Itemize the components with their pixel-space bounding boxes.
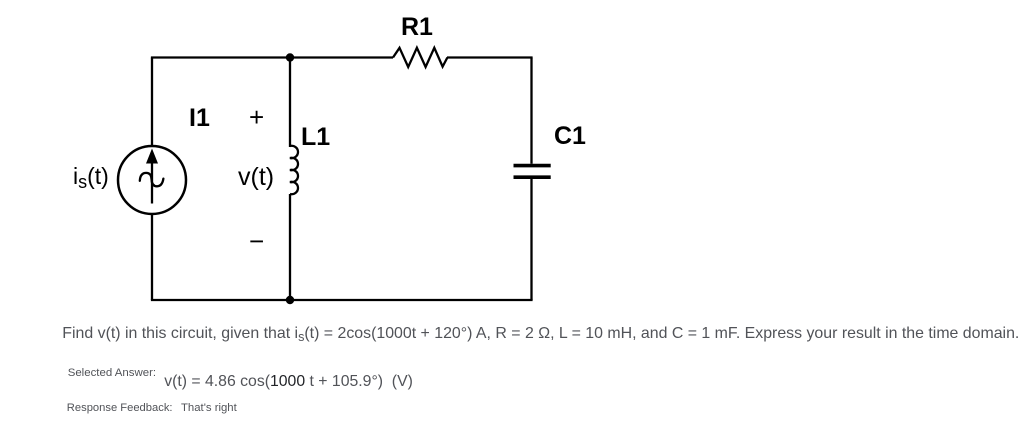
current source I1 circle	[118, 146, 186, 214]
label minus polarity	[249, 228, 264, 254]
wire top rail left segment	[151, 56, 290, 58]
wire right vertical lower	[530, 179, 532, 300]
wire middle vertical lower	[289, 194, 291, 300]
label is(t) source	[73, 165, 109, 191]
capacitor C1	[514, 166, 551, 178]
response feedback value	[181, 403, 237, 414]
wire middle vertical upper	[289, 58, 291, 148]
label plus polarity	[249, 104, 264, 130]
inductor L1	[290, 146, 298, 194]
current source arrow head	[146, 149, 158, 164]
label I1 designator	[189, 106, 210, 131]
wire top rail right segment	[447, 56, 533, 58]
label R1 value	[401, 15, 433, 40]
selected answer value	[164, 374, 413, 390]
selected answer label	[68, 368, 156, 379]
wire left vertical lower (source to bottom rail)	[151, 214, 153, 301]
wire left vertical upper (source to top rail)	[151, 58, 153, 147]
resistor R1	[393, 48, 447, 67]
wire top rail middle segment	[290, 56, 393, 58]
response feedback label	[67, 403, 173, 414]
wire right vertical upper	[530, 58, 532, 164]
label C1 value	[554, 124, 586, 149]
label L1 value	[301, 125, 330, 150]
question text	[62, 326, 1019, 344]
label v(t)	[238, 165, 274, 190]
current source sine tilde	[140, 173, 164, 186]
node B (bottom junction dot)	[286, 296, 294, 304]
current source arrow shaft	[151, 158, 153, 204]
node A (top junction dot)	[286, 53, 294, 61]
wire bottom rail	[151, 299, 533, 301]
